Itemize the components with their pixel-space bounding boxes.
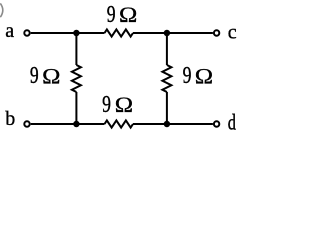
terminal d node (214, 121, 219, 126)
terminal d label (228, 111, 236, 135)
resistor R-top 9 ohm (horizontal) (105, 29, 134, 36)
resistor R-right 9 ohm (vertical) (162, 65, 171, 92)
svg-text:Ω: Ω (115, 93, 133, 117)
svg-text:b: b (5, 108, 15, 130)
svg-text:a: a (5, 20, 14, 42)
svg-text:Ω: Ω (42, 65, 60, 89)
wire left-vertical upper segment (75, 33, 77, 65)
wire right-vertical upper segment (166, 33, 168, 65)
label 9 ohm (left resistor) (30, 62, 39, 89)
label 9 ohm (top resistor) (107, 1, 116, 28)
wire left-vertical lower segment (75, 92, 77, 124)
junction dot top-left (73, 30, 80, 37)
wire top-right (R1 to c) (133, 32, 213, 34)
junction dot bottom-right (164, 121, 171, 128)
svg-text:Ω: Ω (119, 3, 137, 27)
wire bottom-right (R2 to d) (133, 123, 213, 125)
svg-text:Ω: Ω (195, 65, 213, 89)
wire bottom-left (b to R2) (31, 123, 105, 125)
terminal c node (214, 30, 219, 35)
label 9 ohm (bottom resistor) (102, 91, 111, 118)
svg-text:9: 9 (102, 91, 111, 118)
junction dot top-right (164, 30, 171, 37)
terminal b node (24, 121, 29, 126)
svg-text:9: 9 (183, 62, 192, 89)
figure label ")" cropped at left edge (0, 3, 3, 17)
label 9 ohm (right resistor) (183, 62, 192, 89)
svg-text:d: d (228, 111, 236, 135)
svg-text:9: 9 (107, 1, 116, 28)
resistor R-bottom 9 ohm (horizontal) (105, 120, 134, 127)
junction dot bottom-left (73, 121, 80, 128)
resistor R-left 9 ohm (vertical) (72, 65, 81, 92)
wire right-vertical lower segment (166, 92, 168, 124)
wire top-left (a to R1) (31, 32, 105, 34)
svg-text:9: 9 (30, 62, 39, 89)
terminal a node (24, 30, 29, 35)
svg-text:c: c (228, 21, 237, 43)
